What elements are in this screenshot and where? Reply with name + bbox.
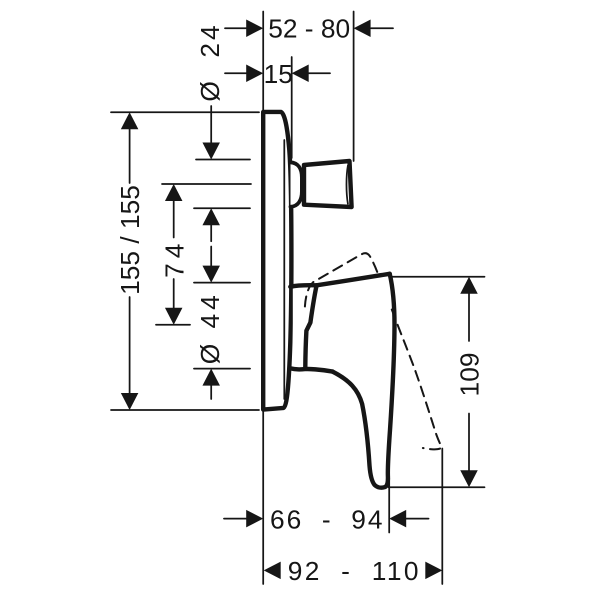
handle tip extension line (109): [389, 486, 485, 488]
dia44 lower arrow tail: [210, 386, 212, 399]
escutcheon plate outline: [263, 112, 291, 410]
dimension line 52-80 left tail: [225, 27, 246, 29]
arrowhead 109 bottom: [460, 470, 478, 487]
dimension line 109 lower segment: [468, 414, 470, 471]
dia24-dia44 connector line: [210, 225, 212, 241]
dashed lever raised position left edge: [305, 253, 379, 306]
tangent line knob top: [196, 159, 250, 161]
arrowhead 155 top: [121, 112, 139, 129]
arrowhead 92-110 left: [264, 562, 281, 580]
svg-text:109: 109: [455, 353, 485, 397]
plate face crease line: [283, 140, 285, 399]
handle blade left edge: [305, 285, 316, 367]
plate top extension line (155): [111, 111, 259, 113]
dimension line 15 right tail: [309, 72, 330, 74]
plate bottom extension line (155): [111, 409, 259, 411]
dimension line 74 lower segment: [173, 279, 175, 308]
svg-text:92 - 110: 92 - 110: [288, 556, 421, 586]
dimension line 74 upper segment: [173, 201, 175, 238]
lever handle silhouette: [293, 274, 395, 488]
dimension line 155 upper segment: [129, 129, 131, 183]
tangent line hub top (dia 44): [194, 282, 250, 284]
arrowhead dia24 down: [202, 143, 220, 160]
extension line plate face (15): [291, 57, 293, 158]
arrowhead 109 top: [460, 277, 478, 294]
extension line knob tip (52-80): [353, 12, 355, 162]
handle lever top edge: [317, 274, 390, 286]
knob centerline extension (74 top): [162, 183, 251, 185]
arrowhead 155 bottom: [121, 393, 139, 410]
arrowhead 74 bottom: [165, 308, 183, 325]
arrowhead dia44 down from above: [202, 266, 220, 283]
arrowhead 66-94 right: [389, 510, 406, 528]
extension line dashed tip vertical (92-110): [441, 449, 443, 585]
extension line left of plate top (52-80): [262, 12, 264, 111]
dimension line 155 lower segment: [129, 297, 131, 393]
svg-text:52 - 80: 52 - 80: [268, 14, 350, 44]
extension line below plate (bottom dims): [262, 411, 264, 584]
handle lever outer edge and tip: [333, 274, 395, 488]
dimension line 15 left tail: [225, 72, 246, 74]
tangent line knob bottom: [194, 207, 250, 209]
extension line handle tip vertical (66-94): [388, 478, 390, 533]
arrowhead 52-80 right: [354, 19, 371, 37]
svg-text:Ø 44: Ø 44: [195, 291, 225, 364]
svg-text:Ø 24: Ø 24: [195, 22, 225, 101]
dimension line 66-94 left tail: [224, 518, 246, 520]
knob cap inner arc: [346, 166, 347, 204]
arrowhead 74 top: [165, 184, 183, 201]
valve spindle neck: [291, 162, 302, 207]
handle hub top edge: [290, 285, 316, 287]
spindle knob: [304, 161, 352, 207]
svg-text:66 - 94: 66 - 94: [270, 504, 384, 534]
arrowhead 92-110 right: [425, 562, 442, 580]
svg-text:15: 15: [264, 59, 293, 89]
arrowhead dia44 up from below: [202, 369, 220, 386]
tangent line hub bottom (dia 44): [194, 368, 250, 370]
arrowhead 66-94 left: [246, 510, 263, 528]
dimension line 66-94 right tail: [406, 518, 428, 520]
handle top extension line (109): [392, 276, 485, 278]
dimension line 109 upper segment: [468, 294, 470, 341]
handle centerline extension (74 bottom): [156, 324, 190, 326]
arrowhead 52-80 left: [246, 19, 263, 37]
arrowhead 15 left: [246, 65, 263, 83]
handle hub bottom edge: [290, 368, 333, 371]
arrowhead dia24 up from below: [202, 208, 220, 225]
svg-text:74: 74: [159, 239, 189, 278]
svg-text:155 / 155: 155 / 155: [115, 185, 145, 295]
dashed lever raised position right edge: [392, 310, 442, 450]
leader line for dia 24: [210, 106, 212, 143]
dimension line 52-80 right tail: [371, 27, 393, 29]
arrowhead 15 right: [292, 65, 309, 83]
